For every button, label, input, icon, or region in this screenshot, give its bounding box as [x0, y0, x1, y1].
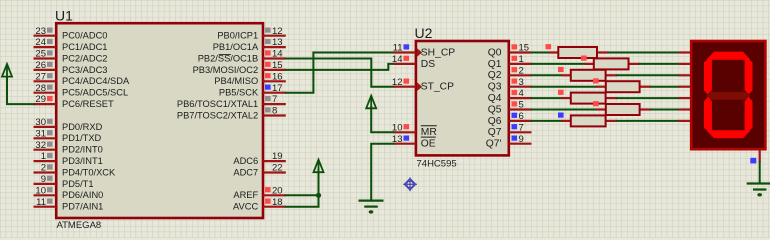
display pin stub row 5 — [679, 108, 692, 110]
U2 pin 1 Q1 — [488, 54, 532, 70]
svg-text:30: 30 — [35, 117, 46, 128]
U1 pin 16 PB4/MISO — [214, 71, 286, 86]
svg-text:PD0/RXD: PD0/RXD — [62, 122, 103, 132]
display pin stub row 0 — [679, 51, 692, 53]
svg-text:Q7: Q7 — [488, 127, 502, 138]
resistor R3 — [558, 67, 617, 81]
svg-text:U1: U1 — [55, 7, 73, 23]
segment G (unlit) — [706, 92, 751, 100]
svg-text:DS: DS — [421, 59, 435, 70]
U2 pin 2 Q2 — [488, 65, 532, 81]
junction dot at AREF wire — [316, 193, 321, 198]
svg-text:PC0/ADC0: PC0/ADC0 — [62, 31, 107, 41]
segment B (lit) — [745, 57, 753, 95]
segment F (lit) — [704, 57, 712, 95]
svg-text:PD7/AIN1: PD7/AIN1 — [62, 202, 103, 212]
U1 pin 22 ADC7 — [233, 163, 285, 178]
svg-text:PC3/ADC3: PC3/ADC3 — [62, 65, 107, 75]
wire - resistor R4 to display segment — [651, 86, 678, 88]
wire - U1 pin15 PB3 MOSI to U2 DS — [286, 64, 394, 70]
resistor R1 — [546, 44, 609, 58]
svg-text:12: 12 — [392, 77, 403, 88]
svg-text:ADC6: ADC6 — [233, 156, 258, 166]
7-segment display body — [691, 41, 765, 149]
svg-text:7: 7 — [272, 94, 277, 105]
svg-text:PC4/ADC4/SDA: PC4/ADC4/SDA — [62, 76, 130, 86]
svg-text:Q0: Q0 — [488, 47, 502, 58]
wire - U2 Q0 to resistor R1 — [532, 52, 549, 54]
resistor R4 — [593, 78, 651, 92]
resistor R7 — [558, 113, 617, 127]
svg-text:2: 2 — [519, 65, 524, 76]
segment D (lit) — [706, 130, 750, 138]
ground below OE — [359, 201, 384, 214]
U1 pin 23 PC0/ADC0 — [34, 26, 108, 41]
wire - AREF/AVCC to power terminal — [286, 194, 319, 196]
resistor R6 — [593, 101, 651, 115]
svg-text:U2: U2 — [415, 25, 433, 41]
power terminal (up arrow) at RESET — [2, 64, 12, 77]
U1 pin 17 PB5/SCK — [219, 83, 286, 98]
svg-text:14: 14 — [272, 49, 283, 60]
svg-text:26: 26 — [35, 60, 46, 71]
power terminal (up arrow) at MR — [366, 96, 376, 109]
wire - U2 Q4 to resistor R5 — [532, 97, 562, 99]
svg-text:10: 10 — [35, 185, 46, 196]
U1 pin 1 PD3/INT1 — [34, 151, 103, 166]
display pin stub row 6 — [679, 120, 692, 122]
U1 pin 29 PC6/RESET — [34, 94, 114, 109]
svg-text:Q2: Q2 — [488, 70, 502, 81]
wire - U1 pin17 PB5 SCK to U2 SH_CP — [286, 53, 394, 93]
U1 pin 7 PB6/TOSC1/XTAL1 — [177, 94, 286, 109]
U1 pin 20 AREF — [233, 185, 285, 200]
U1 pin 18 AVCC — [233, 197, 286, 212]
wire - U2 OE to ground — [371, 144, 393, 201]
U2 pin 3 Q3 — [488, 77, 532, 93]
svg-text:14: 14 — [392, 54, 403, 65]
74HC595 shift register U2 body — [416, 41, 509, 155]
wire - U2 Q5 to resistor R6 — [532, 109, 597, 111]
svg-text:15: 15 — [519, 43, 530, 54]
U1 pin 30 PD0/RXD — [34, 117, 103, 132]
svg-text:PB4/MISO: PB4/MISO — [214, 76, 258, 86]
svg-text:12: 12 — [272, 26, 283, 37]
svg-text:29: 29 — [35, 94, 46, 105]
svg-text:5: 5 — [519, 100, 524, 111]
U1 pin 8 PB7/TOSC2/XTAL2 — [177, 106, 286, 121]
svg-text:7: 7 — [519, 122, 524, 133]
wire - resistor R7 to display segment — [617, 120, 678, 122]
svg-text:1: 1 — [41, 151, 46, 162]
svg-text:AVCC: AVCC — [233, 202, 258, 212]
U2 pin 5 Q5 — [488, 100, 532, 116]
display pin stub row 2 — [679, 74, 692, 76]
svg-text:PC6/RESET: PC6/RESET — [62, 99, 114, 109]
svg-text:PD2/INT0: PD2/INT0 — [62, 145, 103, 155]
microcontroller U1 ATMEGA8 body — [56, 23, 263, 218]
svg-text:AREF: AREF — [233, 190, 258, 200]
wire - U2 Q2 to resistor R3 — [532, 74, 562, 76]
svg-text:ADC7: ADC7 — [233, 167, 258, 177]
U2 pin 10 MR — [392, 122, 437, 138]
U1 pin 27 PC4/ADC4/SDA — [34, 71, 130, 86]
resistor R5 — [558, 90, 617, 104]
U2 pin 4 Q4 — [488, 88, 532, 104]
wire - U1 pin14 PB2 to U2 ST_CP — [286, 59, 394, 87]
svg-text:11: 11 — [393, 43, 403, 54]
svg-text:PB1/OC1A: PB1/OC1A — [213, 42, 259, 52]
U2 pin 6 Q6 — [488, 111, 532, 127]
U1 pin 32 PD2/INT0 — [34, 140, 103, 155]
svg-text:27: 27 — [35, 71, 46, 82]
svg-text:22: 22 — [272, 163, 283, 174]
svg-text:ATMEGA8: ATMEGA8 — [57, 220, 102, 231]
U2 pin 12 ST_CP — [392, 77, 454, 93]
svg-text:PC5/ADC5/SCL: PC5/ADC5/SCL — [62, 88, 128, 98]
U1 pin 28 PC5/ADC5/SCL — [34, 83, 129, 98]
svg-text:23: 23 — [35, 26, 46, 37]
svg-text:Q4: Q4 — [488, 93, 502, 104]
wire - U2 Q3 to resistor R4 — [532, 86, 597, 88]
svg-text:PD6/AIN0: PD6/AIN0 — [62, 190, 103, 200]
U1 pin 15 PB3/MOSI/OC2 — [193, 60, 286, 75]
wire - resistor R1 to display segment — [609, 52, 679, 54]
svg-text:PB7/TOSC2/XTAL2: PB7/TOSC2/XTAL2 — [177, 110, 258, 120]
svg-text:PC1/ADC1: PC1/ADC1 — [62, 42, 107, 52]
svg-text:2: 2 — [41, 163, 46, 174]
svg-text:Q6: Q6 — [488, 116, 502, 127]
U1 pin 26 PC3/ADC3 — [34, 60, 108, 75]
display pin stub row 3 — [679, 86, 692, 88]
display pin stub row 4 — [679, 97, 692, 99]
U1 pin 11 PD7/AIN1 — [34, 197, 104, 212]
U1 pin 12 PB0/ICP1 — [217, 26, 285, 41]
svg-text:6: 6 — [519, 111, 524, 122]
wire - U2 Q1 to resistor R2 — [532, 63, 585, 65]
svg-text:9: 9 — [519, 134, 524, 145]
origin marker (blue crosshair diamond) — [403, 177, 417, 191]
wire - RESET terminal to U1 pin 29 — [7, 78, 34, 105]
svg-text:PD3/INT1: PD3/INT1 — [62, 156, 103, 166]
wire - VCC arrow to U2 MR — [371, 107, 393, 132]
svg-text:17: 17 — [272, 83, 283, 94]
display common pin stub — [759, 149, 761, 162]
svg-text:8: 8 — [272, 106, 277, 117]
svg-text:PD1/TXD: PD1/TXD — [62, 133, 102, 143]
svg-text:24: 24 — [35, 37, 46, 48]
U1 pin 2 PD4/T0/XCK — [34, 163, 117, 178]
svg-text:OE: OE — [421, 139, 436, 150]
U1 pin 10 PD6/AIN0 — [34, 185, 104, 200]
svg-text:19: 19 — [272, 151, 283, 162]
segment E (lit) — [704, 97, 712, 134]
U1 pin 19 ADC6 — [233, 151, 285, 166]
svg-text:PC2/ADC2: PC2/ADC2 — [62, 53, 107, 63]
wire - resistor R3 to display segment — [617, 74, 678, 76]
U1 pin 13 PB1/OC1A — [213, 37, 286, 52]
svg-text:18: 18 — [272, 197, 283, 208]
svg-text:PB0/ICP1: PB0/ICP1 — [217, 31, 258, 41]
display pin stub row 1 — [679, 63, 692, 65]
svg-text:3: 3 — [519, 77, 524, 88]
svg-text:Q5: Q5 — [488, 104, 502, 115]
wire - U2 Q6 to resistor R7 — [532, 120, 562, 122]
svg-text:Q7': Q7' — [486, 139, 502, 150]
svg-text:11: 11 — [36, 197, 46, 208]
wire - resistor R2 to display segment — [640, 63, 679, 65]
svg-text:32: 32 — [35, 140, 46, 151]
U1 pin 24 PC1/ADC1 — [34, 37, 108, 52]
overline for SS on U1 pin 14 label — [219, 54, 231, 56]
wire - display common to ground — [759, 162, 761, 183]
svg-text:9: 9 — [41, 174, 46, 185]
U2 pin 15 Q0 — [488, 43, 532, 59]
display common pin state square — [750, 158, 756, 164]
svg-text:20: 20 — [272, 185, 283, 196]
U1 pin 25 PC2/ADC2 — [34, 49, 108, 64]
U2 pin 11 SH_CP — [393, 43, 456, 59]
svg-text:MR: MR — [421, 127, 437, 138]
U2 pin 13 OE — [392, 134, 436, 150]
U1 pin 31 PD1/TXD — [34, 128, 102, 143]
svg-text:SH_CP: SH_CP — [421, 47, 455, 58]
U2 pin 9 Q7' — [486, 134, 532, 150]
ground below display — [747, 184, 770, 197]
U1 pin 9 PD5/T1 — [34, 174, 94, 189]
svg-text:16: 16 — [272, 71, 283, 82]
U2 pin 7 Q7 — [488, 122, 532, 138]
svg-text:PB6/TOSC1/XTAL1: PB6/TOSC1/XTAL1 — [177, 99, 258, 109]
svg-text:ST_CP: ST_CP — [421, 82, 454, 93]
svg-text:1: 1 — [519, 54, 524, 65]
svg-text:PB3/MOSI/OC2: PB3/MOSI/OC2 — [193, 65, 259, 75]
power terminal (up arrow) at AREF/AVCC — [314, 160, 324, 173]
svg-text:74HC595: 74HC595 — [417, 159, 457, 170]
svg-text:PD4/T0/XCK: PD4/T0/XCK — [62, 167, 116, 177]
svg-text:13: 13 — [272, 37, 283, 48]
svg-text:31: 31 — [35, 128, 46, 139]
svg-text:25: 25 — [35, 49, 46, 60]
segment C (lit) — [745, 97, 753, 134]
wire - resistor R6 to display segment — [651, 109, 678, 111]
svg-text:Q1: Q1 — [488, 59, 502, 70]
segment A (lit) — [706, 52, 750, 60]
svg-text:4: 4 — [519, 88, 524, 99]
U2 pin 14 DS — [392, 54, 435, 70]
resistor R2 — [581, 56, 640, 70]
wire - resistor R5 to display segment — [617, 97, 678, 99]
svg-text:28: 28 — [35, 83, 46, 94]
svg-text:Q3: Q3 — [488, 82, 502, 93]
svg-text:15: 15 — [272, 60, 283, 71]
svg-text:PD5/T1: PD5/T1 — [62, 179, 94, 189]
svg-text:PB5/SCK: PB5/SCK — [219, 88, 259, 98]
U1 pin 14 PB2/SS/OC1B — [198, 49, 286, 64]
